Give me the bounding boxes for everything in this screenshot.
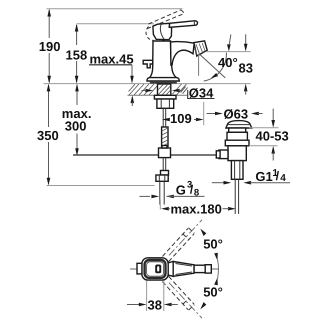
bottom view: lever arm tapered: [173, 262, 194, 277]
svg-text:G: G: [176, 182, 186, 197]
svg-text:350: 350: [37, 128, 59, 143]
faucet: dashed handle body arc (rotated position): [146, 27, 153, 41]
svg-text:40-53: 40-53: [256, 128, 289, 143]
dimension max.180 extension: [159, 200, 161, 210]
faucet: dashed lever in raised position: [147, 10, 184, 29]
dimension 350 arrow down: [47, 178, 51, 186]
svg-text:83: 83: [239, 61, 253, 76]
pop-up rod horizontal: [73, 154, 217, 156]
40° reference horizontal: [206, 51, 251, 53]
bottom view: lever tip cap: [205, 265, 211, 273]
waste: plug stem: [229, 128, 246, 132]
svg-text:158: 158: [66, 47, 88, 62]
max.45 leader vertical: [131, 65, 133, 77]
40° arc arrow on axis: [211, 73, 218, 78]
svg-text:300: 300: [65, 119, 87, 134]
svg-text:Ø34: Ø34: [189, 85, 214, 100]
waste: body lower: [228, 146, 246, 161]
reference line handle-rest level (158 dim upper extent): [77, 23, 154, 25]
max.45 arrow up to deck bottom: [131, 95, 135, 103]
shank through deck (hatched): [158, 84, 171, 95]
dimension 38 extensions: [146, 281, 148, 311]
dimension 350 line: [48, 85, 50, 127]
bottom view: body outer: [142, 258, 168, 280]
40° arc arrow top: [227, 44, 231, 51]
nut facets: [158, 175, 160, 181]
deck hatch left: [129, 84, 158, 95]
50° arc upper arrow at radial line: [200, 229, 206, 236]
spray head hatch: [195, 43, 206, 55]
svg-text:Ø63: Ø63: [224, 106, 249, 121]
dimension 158 arrow up: [75, 24, 79, 32]
dimension max.300 arrow up: [75, 84, 79, 92]
bottom view: body inner ring dark band: [145, 260, 166, 278]
40-53 arrows: [272, 109, 274, 121]
G3/8 tube: [159, 181, 161, 204]
40° spray axis: [199, 54, 225, 78]
nut facet lines: [160, 99, 162, 108]
40° arc arrow top tail: [229, 35, 231, 46]
washer under deck: [154, 95, 176, 99]
dimension G1 1/4 leader: [212, 182, 225, 184]
bottom view: center cartridge: [155, 265, 161, 274]
deck top line: [44, 83, 251, 85]
dimension Ø63 right arrow: [251, 112, 259, 116]
faucet: spray head hatched: [194, 41, 207, 56]
dimension 40-53 top extension: [249, 127, 279, 129]
faucet: base escutcheon: [147, 78, 179, 81]
dimension 40-53 bottom extension: [249, 145, 278, 147]
bottom view: body inner edge: [147, 262, 164, 276]
rod below fitting: [162, 158, 164, 171]
svg-text:190: 190: [39, 39, 61, 54]
max.180 left arrow: [161, 207, 169, 211]
dimension max.300 arrow down: [75, 148, 79, 156]
svg-text:max.45: max.45: [90, 51, 134, 66]
cross linkage fitting: [159, 148, 171, 158]
bottom view: 50° radial line upper: [169, 220, 202, 256]
mounting nut: [157, 99, 174, 108]
svg-text:/: /: [276, 169, 280, 183]
waste: tailpiece: [231, 161, 243, 180]
bottom view: lever neck: [168, 262, 173, 277]
faucet: base gasket dark strip: [150, 81, 177, 84]
max.180 right arrow: [228, 207, 236, 211]
50° arc upper arrow at centerline: [214, 253, 218, 261]
reference line top (190 dim upper extent): [47, 8, 183, 10]
waste: drain pipe: [234, 179, 236, 214]
dimension Ø34 arrows at shank: [145, 89, 153, 93]
faucet: handle body: [153, 23, 172, 39]
svg-text:50°: 50°: [203, 284, 223, 299]
dimension 158 arrow down: [75, 76, 79, 84]
dimension 190 arrow down: [47, 76, 51, 84]
svg-text:4: 4: [280, 173, 286, 184]
faucet: body outline: [150, 41, 177, 78]
waste: seal ring flange: [225, 140, 249, 146]
dimension 190 line: [48, 10, 50, 38]
svg-text:8: 8: [194, 188, 199, 199]
bottom view: centerline: [130, 268, 219, 270]
dimension 109 extension line (spray tip): [203, 102, 205, 125]
dimension 190 arrow up: [47, 9, 51, 17]
faucet: neck nub: [162, 40, 165, 42]
faucet: handle facet line: [160, 24, 164, 40]
cartridge slot: [157, 266, 159, 271]
svg-text:40°: 40°: [218, 55, 238, 70]
bottom view: 50° radial line lower: [169, 283, 202, 319]
dimension max.300 line: [76, 85, 78, 105]
dimension Ø63 left arrow: [207, 113, 218, 115]
50° arc lower arrow at centerline: [214, 278, 218, 286]
faucet: pop-up rod knob left: [143, 60, 153, 68]
max.45 arrow down to deck top: [130, 76, 134, 84]
50° arc lower arrow at radial line: [200, 302, 206, 309]
fitting screw top: [162, 146, 167, 149]
faucet: spout to spray head: [171, 42, 195, 65]
50° arc upper end segment: [217, 260, 220, 270]
svg-text:109: 109: [170, 111, 192, 126]
50° arc lower end segment: [217, 269, 220, 279]
svg-text:50°: 50°: [203, 236, 223, 251]
Ø34 label shelf: [188, 90, 215, 99]
waste: lever boss: [219, 150, 228, 159]
svg-text:38: 38: [148, 297, 162, 312]
tailpiece facets: [234, 161, 236, 180]
40° vertical reference at spray head: [198, 54, 200, 76]
connector sleeve: [161, 171, 169, 176]
waste: flange dome: [226, 121, 252, 128]
waste: boss collar: [216, 151, 220, 158]
svg-text:max.180: max.180: [171, 201, 222, 216]
bottom view: dashed lever lower rotated: [162, 276, 194, 310]
faucet: solid lever bar: [169, 21, 197, 28]
deck bottom line: [128, 94, 188, 96]
lever arm facet: [176, 264, 193, 267]
reference line bottom (350 dim lower extent): [47, 185, 155, 187]
bottom view: left tab: [137, 263, 142, 274]
deck hatch right: [173, 84, 187, 95]
waste: dome cap line: [227, 124, 250, 126]
dimension 109 line with arrows: [162, 118, 170, 122]
dimension 350 arrow up: [47, 84, 51, 92]
waste: body upper: [227, 132, 247, 140]
dimension 38 arrows: [127, 304, 139, 306]
Ø34 leader zigzag: [181, 87, 188, 94]
dimension 158 line: [76, 25, 78, 45]
bottom view: dashed lever upper rotated: [162, 228, 194, 262]
supply pipe upper: [162, 108, 164, 127]
svg-text:G1: G1: [255, 169, 272, 184]
40° arc: [204, 53, 227, 81]
shank hatch: [158, 84, 171, 95]
G3/8 nut: [156, 175, 168, 181]
faucet: lever bar cap line: [193, 21, 195, 26]
dimension 83 line: [245, 34, 247, 45]
dimension G3/8 arrows: [140, 195, 151, 197]
bottom view: lever bar: [194, 265, 205, 272]
threaded pipe section (hatched): [162, 127, 168, 147]
max.45 underline: [89, 64, 132, 66]
